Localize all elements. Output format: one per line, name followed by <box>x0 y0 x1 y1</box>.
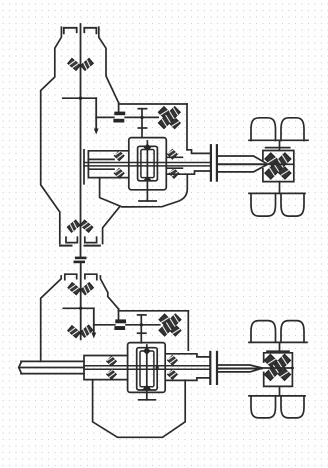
bearing left top <box>114 151 124 161</box>
right tube bottom step <box>166 171 210 174</box>
wheel LF inner <box>281 118 304 141</box>
hub link bottom <box>279 182 281 194</box>
diamond gear top <box>144 144 152 152</box>
wheel rim line top <box>249 139 308 141</box>
bevel pinion bottom <box>143 177 153 182</box>
crossed helical gears (lower) <box>159 314 181 336</box>
right tube top step <box>187 150 210 154</box>
bearing L top (lower) <box>107 356 117 366</box>
diff axle line (lower) <box>262 367 293 369</box>
bearing cap line <box>266 147 290 149</box>
gearbox case top <box>119 103 187 105</box>
bevel pair mid (lower unit) <box>68 326 80 338</box>
hub link top (lower) <box>279 342 281 352</box>
wheel LF outer <box>251 118 276 141</box>
coupling plate 2 <box>113 119 124 123</box>
left tube inner line top <box>88 158 114 160</box>
right tube (lower) top <box>165 354 208 357</box>
flange coupling bars <box>210 145 212 180</box>
node: intermediate shaft junction (lower) <box>140 323 143 326</box>
housing bell outline right <box>99 27 119 103</box>
axle to wheels tapered (lower) <box>218 365 262 368</box>
shaft after coupling (lower) <box>126 324 160 326</box>
bevel gear pair upper <box>68 58 80 70</box>
bevel pair upper (lower unit) <box>68 283 80 295</box>
bearing cap line (lower) <box>267 350 289 352</box>
coupling plate 1 (lower unit) <box>115 319 126 323</box>
left axle tube box <box>88 151 128 178</box>
diamond gear top (lower) <box>143 347 151 355</box>
power take-off line <box>63 97 96 99</box>
node: intermediate shaft junction <box>140 116 143 119</box>
take-off line (lower unit) <box>63 307 94 309</box>
inner gear rect wall (lower) <box>140 351 154 387</box>
diff axle line <box>267 163 294 165</box>
left tube inner line bottom <box>88 168 114 170</box>
wheel RR inner <box>281 396 304 418</box>
lower bracket bar left <box>60 245 72 247</box>
axle center line double <box>84 162 210 164</box>
center double line through box <box>84 365 210 367</box>
gearbox top (lower) <box>119 310 189 312</box>
housing drop to coupling (lower) <box>118 309 120 320</box>
stem + foot (lower) <box>146 390 148 400</box>
differential crossed gears <box>265 153 291 179</box>
drop line with arrow (lower) <box>93 308 95 334</box>
intermediate shaft with ticks <box>141 109 143 138</box>
gearbox right edge (lower) <box>187 311 189 350</box>
node: pinion shaft junction <box>156 366 159 369</box>
top bracket right (lower unit) <box>85 274 97 280</box>
left axle tube cap <box>83 150 85 184</box>
coupling plate 2 (lower unit) <box>114 326 125 330</box>
coupling plate upper <box>75 257 87 260</box>
bearing right bottom <box>169 169 179 179</box>
inner gear rect wall <box>141 150 154 178</box>
top bearing bracket left <box>64 28 77 34</box>
wheel RF outer <box>251 193 276 216</box>
intermediate shaft w ticks (lower) <box>140 315 142 343</box>
tube box (lower left) <box>84 356 128 380</box>
lower bracket cup left <box>66 237 77 242</box>
inner gear rect (lower) <box>137 348 158 390</box>
bevel gear pair lower <box>67 220 79 232</box>
stub shaft to coupling (lower) <box>94 324 115 326</box>
bearing L bottom (lower) <box>107 369 117 379</box>
drop line with arrow <box>95 98 97 130</box>
bearing R bottom (lower) <box>168 370 178 380</box>
wheel RF inner <box>281 193 304 216</box>
housing bell outline left <box>41 27 62 243</box>
left axle bottom line <box>21 373 84 375</box>
gear centerline <box>146 141 148 181</box>
right bearing seat lines <box>166 157 182 168</box>
main gear case box (lower) <box>128 343 166 393</box>
top bracket left (lower unit) <box>65 274 77 280</box>
vertical shaft lower <box>80 264 82 340</box>
inner gear rect <box>138 146 158 181</box>
wheel RR outer <box>251 396 276 418</box>
vertical input shaft <box>80 24 82 256</box>
input stub shaft to coupling <box>96 116 114 118</box>
output stem <box>146 181 148 201</box>
rim line (lower top) <box>249 341 307 343</box>
wheel LR inner <box>281 321 304 343</box>
bevel pinion bottom (lower) <box>142 385 152 390</box>
arrowhead <box>94 129 99 135</box>
lower bell outline left <box>41 276 62 361</box>
right tube (lower) bottom <box>165 378 208 381</box>
bearing left bottom <box>114 168 124 178</box>
left axle center line <box>19 367 84 369</box>
bottom housing bell (lower unit) <box>93 380 186 438</box>
left long axle: taper cap <box>19 361 22 373</box>
centerline (lower box) <box>146 345 148 390</box>
node: diff right journal <box>291 367 294 370</box>
wheel rim line bottom <box>249 192 305 194</box>
lower bracket bar right <box>85 245 100 247</box>
stem foot bar <box>139 200 156 202</box>
hub link bottom (lower) <box>279 386 281 395</box>
differential gears (lower) <box>264 354 290 380</box>
coupling (horizontal shaft) plate 1 <box>114 112 125 116</box>
axle shaft to wheels: tapered <box>218 156 267 164</box>
bearing R top (lower) <box>168 355 178 365</box>
lower bell outline right <box>100 276 118 309</box>
bearing right top <box>168 149 178 159</box>
differential housing (lower) <box>264 353 293 387</box>
main gear case box <box>129 138 167 190</box>
housing bell lower-right slant <box>103 207 120 243</box>
left axle top line <box>21 360 84 362</box>
node: shaft junction <box>79 97 82 100</box>
rim line (lower bottom) <box>249 395 305 397</box>
flange bars (lower) <box>209 352 211 384</box>
wheel LR outer <box>251 321 276 343</box>
lower bracket cup right <box>85 237 97 242</box>
coupling plate lower <box>74 261 86 264</box>
crossed helical gears <box>158 107 180 129</box>
gearbox case right edge <box>186 104 188 150</box>
bottom housing bell <box>100 174 188 207</box>
housing drop to coupling <box>118 103 120 112</box>
top bearing bracket right <box>84 28 96 34</box>
node: shaft junction (lower) <box>79 307 82 310</box>
hub link top <box>279 140 281 150</box>
shaft after coupling <box>125 116 158 118</box>
differential housing <box>263 151 294 182</box>
